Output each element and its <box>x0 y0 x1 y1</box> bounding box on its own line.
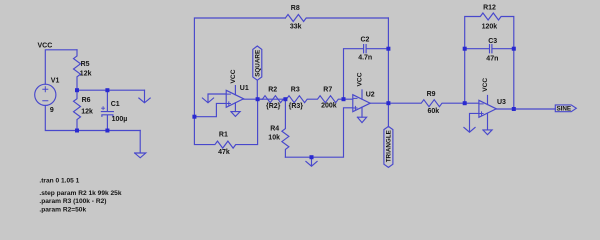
svg-text:V1: V1 <box>51 78 60 85</box>
svg-text:R2: R2 <box>268 87 277 94</box>
svg-text:R9: R9 <box>427 91 436 98</box>
svg-text:12k: 12k <box>80 71 92 78</box>
svg-text:TRIANGLE: TRIANGLE <box>386 130 393 162</box>
svg-text:9: 9 <box>50 107 54 114</box>
svg-text:R1: R1 <box>219 132 228 139</box>
svg-text:U3: U3 <box>497 99 506 106</box>
svg-text:U1: U1 <box>240 85 249 92</box>
svg-text:{R2}: {R2} <box>266 103 281 110</box>
svg-text:.param R2=50k: .param R2=50k <box>39 207 86 214</box>
svg-text:4.7n: 4.7n <box>358 54 372 61</box>
svg-text:12k: 12k <box>81 109 93 116</box>
svg-text:47n: 47n <box>486 55 498 62</box>
svg-text:U2: U2 <box>366 92 375 99</box>
svg-text:.step param R2 1k 99k 25k: .step param R2 1k 99k 25k <box>39 190 121 197</box>
svg-text:47k: 47k <box>218 149 230 156</box>
svg-text:VCC: VCC <box>230 69 237 83</box>
svg-text:10k: 10k <box>268 134 280 141</box>
svg-text:C3: C3 <box>488 38 497 45</box>
svg-text:C2: C2 <box>361 37 370 44</box>
svg-text:120k: 120k <box>482 24 498 31</box>
svg-text:VCC: VCC <box>38 42 53 49</box>
svg-text:.tran 0 1.05 1: .tran 0 1.05 1 <box>39 178 79 185</box>
svg-text:60k: 60k <box>428 108 440 115</box>
svg-text:200k: 200k <box>321 102 337 109</box>
svg-text:VCC: VCC <box>357 72 364 86</box>
svg-text:R12: R12 <box>483 5 496 12</box>
svg-text:R5: R5 <box>81 61 90 68</box>
svg-text:C1: C1 <box>111 101 120 108</box>
svg-text:{R3}: {R3} <box>289 103 304 110</box>
svg-text:R4: R4 <box>270 126 279 133</box>
svg-text:100µ: 100µ <box>112 116 128 123</box>
svg-text:R8: R8 <box>291 5 300 12</box>
svg-text:R3: R3 <box>291 87 300 94</box>
svg-text:VCC: VCC <box>482 78 489 92</box>
svg-text:33k: 33k <box>290 24 302 31</box>
svg-text:R6: R6 <box>82 97 91 104</box>
svg-text:SINE: SINE <box>556 106 571 113</box>
svg-text:R7: R7 <box>323 87 332 94</box>
svg-text:SQUARE: SQUARE <box>255 50 262 77</box>
svg-text:.param R3 (100k - R2): .param R3 (100k - R2) <box>39 198 106 205</box>
